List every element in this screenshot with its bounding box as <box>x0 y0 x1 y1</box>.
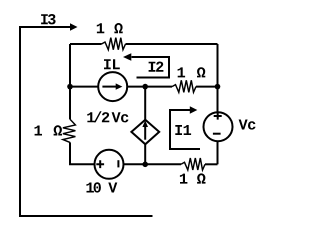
wire left rail upper <box>69 44 71 119</box>
resistor R-bottom 1 ohm <box>181 158 205 170</box>
label I1 <box>175 125 191 135</box>
wire bottom row middle <box>124 163 181 165</box>
label 1ohmleft <box>35 125 63 135</box>
mesh current I1 hook wire <box>170 110 200 149</box>
arrowhead I1 <box>190 106 198 114</box>
wire diamond stem top <box>144 87 146 120</box>
mesh current I2 hook wire <box>132 57 170 78</box>
junction dot left rail <box>67 84 73 90</box>
wire IL row right <box>196 86 218 88</box>
resistor R-top 1 ohm <box>102 38 126 50</box>
label 1ohmmid <box>178 67 206 77</box>
current source IL arrow shaft <box>102 86 116 88</box>
junction dot IL row <box>142 84 148 90</box>
label 1ohmbot <box>180 173 206 183</box>
plus sign Vc <box>214 113 222 120</box>
dependent source arrow shaft <box>144 127 146 140</box>
wire right rail lower <box>217 141 219 164</box>
label I2 <box>149 62 164 72</box>
wire top row right <box>126 43 218 45</box>
arrowhead I2 <box>123 53 131 61</box>
arrowhead dependent source <box>142 120 148 127</box>
wire left rail lower <box>70 142 94 164</box>
junction dot bottom row <box>142 162 148 168</box>
arrowhead I3 <box>70 23 78 31</box>
label 10V <box>86 182 117 192</box>
junction dot right rail <box>215 84 221 90</box>
dependent source diamond 1/2Vc <box>131 120 159 145</box>
label I3 <box>41 14 56 24</box>
label 1ohmtop <box>97 23 123 33</box>
mesh current I3 hook wire <box>20 27 153 216</box>
resistor R-mid 1 ohm <box>172 80 196 92</box>
minus sign Vc <box>213 133 221 135</box>
wire IL row left <box>70 86 98 88</box>
wire right rail upper <box>217 44 219 112</box>
label Vc <box>239 120 256 130</box>
resistor R-left 1 ohm <box>63 119 76 142</box>
plus sign 10V <box>96 160 104 168</box>
current source IL circle <box>98 72 127 101</box>
wire IL row middle <box>127 86 172 88</box>
label halfVc <box>87 111 128 122</box>
label IL <box>104 59 120 69</box>
voltage source 10V circle <box>95 150 124 179</box>
wire top row left <box>70 43 102 45</box>
wire diamond stem bottom <box>144 144 146 164</box>
arrowhead IL <box>116 83 123 89</box>
voltage source Vc circle <box>204 112 233 141</box>
minus bar 10V <box>117 160 119 167</box>
wire bottom right corner <box>205 163 218 165</box>
